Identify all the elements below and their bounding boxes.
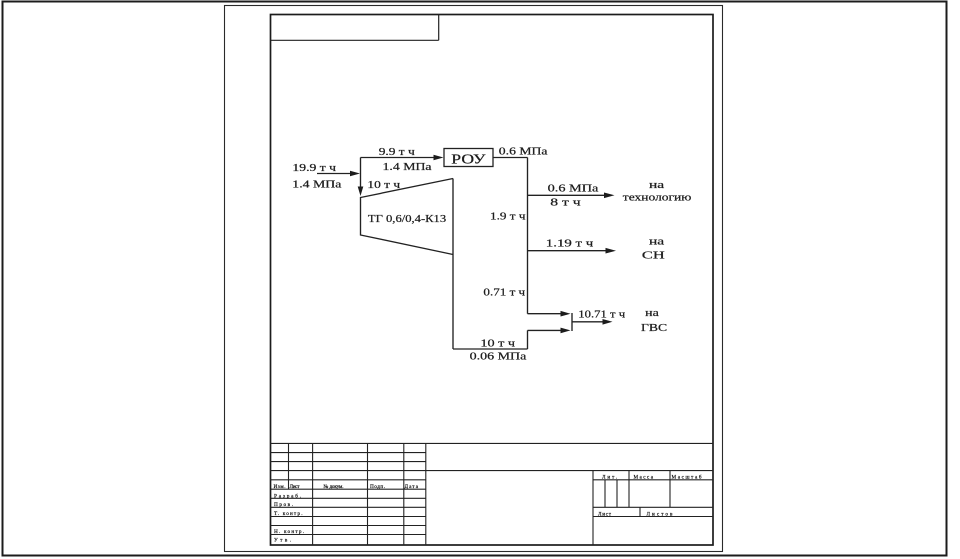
svg-text:Лист: Лист [290,484,301,490]
svg-text:10 т ч: 10 т ч [480,338,515,349]
svg-text:8 т ч: 8 т ч [550,196,581,207]
svg-text:Разраб.: Разраб. [274,492,301,499]
svg-text:10.71 т ч: 10.71 т ч [578,310,625,320]
svg-text:Н. контр.: Н. контр. [274,529,304,535]
svg-text:1.4 МПа: 1.4 МПа [383,161,433,173]
svg-text:1.4 МПа: 1.4 МПа [292,178,342,190]
svg-text:Лит.: Лит. [602,475,617,481]
svg-text:9.9 т ч: 9.9 т ч [379,146,415,158]
svg-text:Дата: Дата [405,484,419,490]
svg-text:0.6 МПа: 0.6 МПа [499,145,548,157]
svg-text:Подп.: Подп. [370,484,385,490]
svg-text:Масса: Масса [634,475,654,481]
svg-text:10 т ч: 10 т ч [367,179,400,191]
svg-text:СН: СН [642,250,665,261]
svg-text:0.6 МПа: 0.6 МПа [548,183,599,194]
svg-text:РОУ: РОУ [451,152,486,167]
svg-text:ТГ 0,6/0,4-К13: ТГ 0,6/0,4-К13 [368,214,447,225]
svg-text:на: на [649,235,664,247]
svg-text:на: на [645,307,659,319]
svg-text:Изм.: Изм. [274,484,286,490]
svg-text:0.71 т ч: 0.71 т ч [483,287,525,298]
svg-text:1.9 т ч: 1.9 т ч [490,211,526,222]
svg-text:№ докум.: № докум. [324,484,344,490]
svg-text:технологию: технологию [623,191,692,203]
svg-text:Т. контр.: Т. контр. [274,511,303,517]
svg-text:19.9 т ч: 19.9 т ч [292,162,336,174]
svg-text:Лист: Лист [598,511,612,517]
svg-text:1.19 т ч: 1.19 т ч [546,238,594,249]
svg-text:ГВС: ГВС [641,322,667,334]
svg-text:на: на [649,179,664,191]
svg-text:0.06 МПа: 0.06 МПа [470,350,527,362]
